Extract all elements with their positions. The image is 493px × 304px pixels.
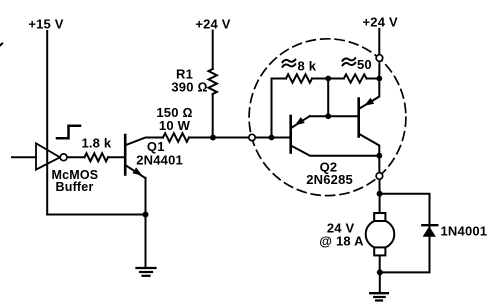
svg-text:2N6285: 2N6285 — [306, 172, 353, 187]
svg-text:10 W: 10 W — [159, 118, 191, 133]
svg-text:+24 V: +24 V — [195, 16, 230, 31]
svg-text:+24 V: +24 V — [363, 14, 398, 29]
svg-text:+15 V: +15 V — [28, 17, 63, 32]
svg-text:@ 18 A: @ 18 A — [319, 234, 364, 249]
svg-text:1N4001: 1N4001 — [441, 224, 488, 239]
svg-text:1.8 k: 1.8 k — [81, 136, 111, 151]
svg-text:2N4401: 2N4401 — [136, 152, 183, 167]
svg-text:50: 50 — [357, 57, 372, 72]
svg-text:8 k: 8 k — [298, 58, 317, 73]
svg-text:390 Ω: 390 Ω — [171, 80, 207, 95]
svg-text:Buffer: Buffer — [56, 180, 94, 194]
